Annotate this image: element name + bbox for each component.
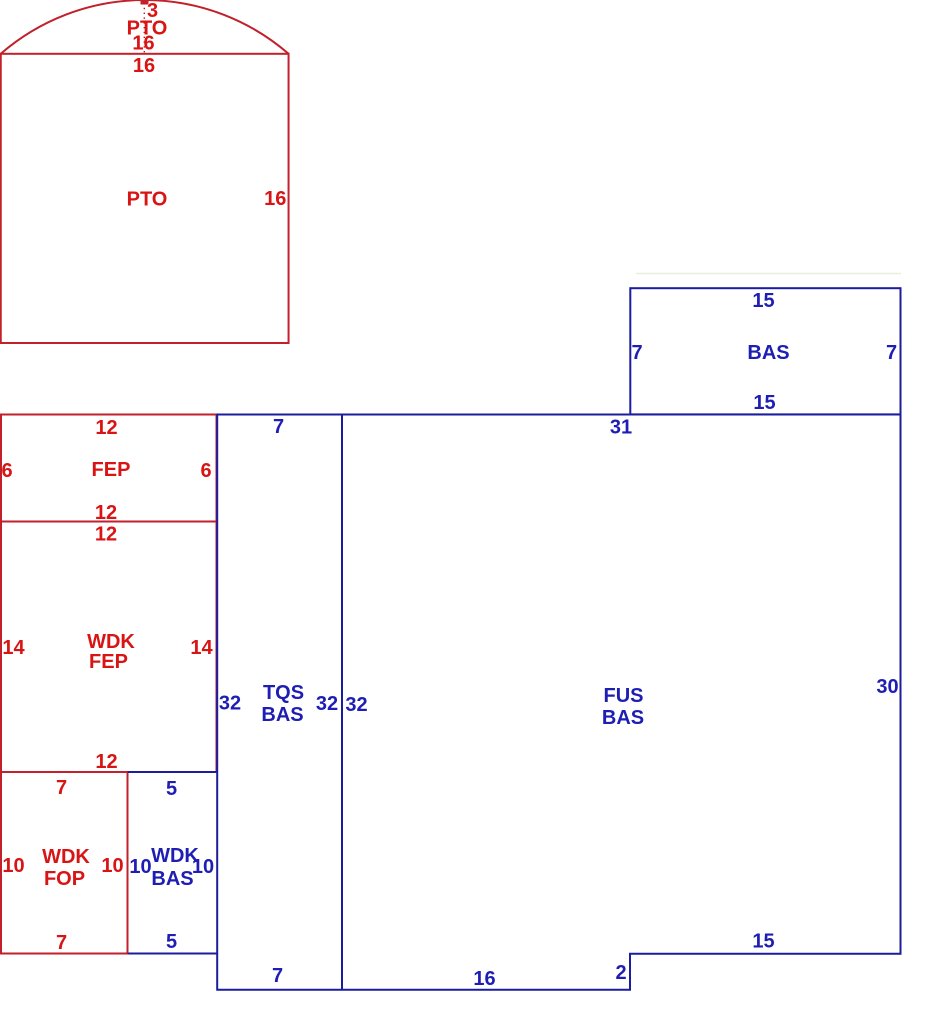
svg-text:16: 16 xyxy=(132,32,154,54)
svg-text:FOP: FOP xyxy=(44,868,85,890)
svg-text:12: 12 xyxy=(95,502,117,524)
faint artifact line above BAS xyxy=(636,273,901,275)
svg-text:10: 10 xyxy=(192,856,214,878)
PTO rectangle xyxy=(1,54,289,343)
svg-text:5: 5 xyxy=(166,931,177,953)
WDK BAS bottom line xyxy=(128,953,218,955)
svg-text:12: 12 xyxy=(95,751,117,773)
svg-text:14: 14 xyxy=(2,637,25,659)
WDK FOP rectangle xyxy=(1,772,128,954)
svg-text:WDK: WDK xyxy=(87,631,135,653)
svg-text:7: 7 xyxy=(273,416,284,438)
svg-text:15: 15 xyxy=(752,290,774,312)
PTO arch top xyxy=(1,0,289,54)
svg-text:32: 32 xyxy=(316,693,338,715)
svg-text:15: 15 xyxy=(752,931,774,953)
svg-text:12: 12 xyxy=(95,524,117,546)
TQS BAS divider line xyxy=(341,415,343,990)
svg-text:16: 16 xyxy=(473,968,495,990)
svg-text:32: 32 xyxy=(219,693,241,715)
svg-text:BAS: BAS xyxy=(747,342,789,364)
svg-text:TQS: TQS xyxy=(263,682,304,704)
svg-text:5: 5 xyxy=(166,778,177,800)
svg-text:12: 12 xyxy=(95,417,117,439)
BAS rectangle (upper right) xyxy=(630,288,900,414)
svg-text:WDK: WDK xyxy=(42,846,90,868)
svg-text:2: 2 xyxy=(615,962,626,984)
svg-text:10: 10 xyxy=(101,855,123,877)
svg-text:BAS: BAS xyxy=(261,704,303,726)
svg-text:10: 10 xyxy=(129,856,151,878)
svg-text:10: 10 xyxy=(2,855,24,877)
main outline FUS BAS / TQS BAS xyxy=(217,415,900,990)
svg-text:7: 7 xyxy=(56,932,67,954)
svg-text:BAS: BAS xyxy=(151,868,193,890)
svg-text:15: 15 xyxy=(753,392,775,414)
PTO apex marker xyxy=(141,0,149,5)
svg-text:30: 30 xyxy=(876,676,898,698)
svg-text:16: 16 xyxy=(264,188,286,210)
PTO center dotted line xyxy=(143,3,145,54)
svg-text:FEP: FEP xyxy=(89,651,128,673)
svg-text:7: 7 xyxy=(56,777,67,799)
FEP rectangle xyxy=(1,415,217,522)
svg-text:6: 6 xyxy=(200,460,211,482)
svg-text:BAS: BAS xyxy=(602,707,644,729)
svg-text:7: 7 xyxy=(631,342,642,364)
svg-text:FEP: FEP xyxy=(92,459,131,481)
svg-text:6: 6 xyxy=(1,460,12,482)
WDK BAS top line xyxy=(128,771,218,773)
svg-text:14: 14 xyxy=(190,637,213,659)
svg-text:PTO: PTO xyxy=(127,189,168,211)
svg-text:7: 7 xyxy=(886,342,897,364)
svg-text:32: 32 xyxy=(345,694,367,716)
svg-text:16: 16 xyxy=(133,55,155,77)
svg-text:31: 31 xyxy=(610,417,632,439)
svg-text:7: 7 xyxy=(272,965,283,987)
WDK FEP rectangle xyxy=(1,522,217,773)
svg-text:FUS: FUS xyxy=(604,685,644,707)
